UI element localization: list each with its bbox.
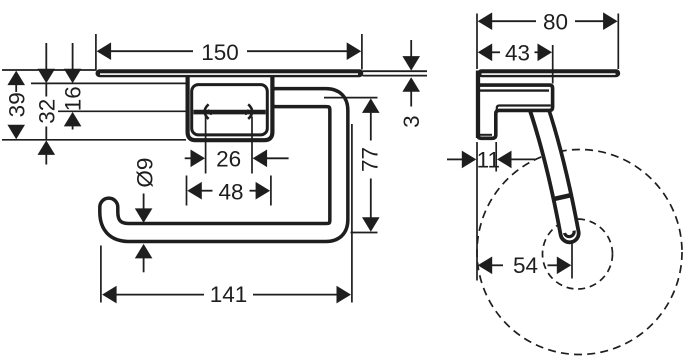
extension line shelf-top (y70) xyxy=(2,69,96,71)
shelf S2 (side view bar) xyxy=(477,69,620,77)
extension line plate-top (y83.4) xyxy=(31,82,186,84)
dim 26 right extension xyxy=(251,117,253,174)
dim 26 arrow left (outside pointing right) xyxy=(191,150,206,168)
holder arm A1 inner cap arc xyxy=(565,231,575,237)
wire W1 white core xyxy=(109,98,339,233)
svg-text:Ø9: Ø9 xyxy=(132,158,157,188)
bracket K1 foot inner line xyxy=(480,134,492,136)
svg-text:77: 77 xyxy=(358,147,383,172)
dim D9 arrow down xyxy=(135,208,153,223)
dim 54 line left xyxy=(492,264,504,266)
dim 16 tail top xyxy=(72,43,74,70)
dim 141 line right xyxy=(253,294,338,296)
dim 150 line right xyxy=(247,50,347,52)
dim 11 left tail xyxy=(447,158,463,160)
dim 3 bottom face line xyxy=(363,75,428,77)
dim D9 lower tail xyxy=(143,258,145,273)
dim 48 left extension xyxy=(186,176,188,206)
dim 80 arrow left xyxy=(478,12,493,30)
dim 11 right extension xyxy=(495,142,497,172)
extension line plate-bottom (y139.8) xyxy=(2,139,186,141)
shelf S2 inner slit xyxy=(482,73,616,75)
dim 26 arrow right (outside pointing left) xyxy=(253,150,268,168)
dim 3 lower tail xyxy=(410,91,412,107)
dim 150 arrow right xyxy=(347,42,362,60)
svg-text:11: 11 xyxy=(477,148,500,173)
extension line spindle (y111.3) xyxy=(58,110,186,112)
dim 77 bottom extension xyxy=(351,232,378,234)
roll core small dashed circle xyxy=(543,219,613,289)
dim 26 right tail xyxy=(267,157,289,159)
holder arm A1 joint seam xyxy=(555,195,571,198)
holder arm A1 white core xyxy=(539,107,570,233)
dim 3 arrow up (outside) xyxy=(402,77,420,92)
spring clip CL1 tick xyxy=(208,110,211,115)
dim 39 arrow up xyxy=(7,71,25,86)
dim 80 line left xyxy=(492,20,537,22)
svg-text:80: 80 xyxy=(543,10,568,35)
roll spindle bar B1 xyxy=(193,110,265,115)
svg-text:54: 54 xyxy=(513,253,538,278)
wall bracket K1 (side view outline) xyxy=(478,85,553,138)
wire roll-holder W1 (front view, double-line tube) xyxy=(109,98,339,233)
svg-text:43: 43 xyxy=(505,41,530,66)
bracket K1 step inner line xyxy=(497,106,551,111)
dim 26 left tail xyxy=(185,157,191,159)
dim 80 left extension xyxy=(476,14,478,70)
svg-text:48: 48 xyxy=(218,179,243,204)
wall line xyxy=(476,71,480,139)
dim 80 right extension xyxy=(617,14,619,70)
dim 16 arrow top (outside) xyxy=(64,69,82,84)
svg-text:16: 16 xyxy=(61,86,86,111)
dim 54 line right xyxy=(548,264,558,266)
svg-text:32: 32 xyxy=(34,99,59,124)
dim 48 line right xyxy=(250,190,257,192)
dim 43 line right xyxy=(535,51,539,53)
dim 80 arrow right xyxy=(603,12,618,30)
svg-text:26: 26 xyxy=(216,147,241,172)
dim 32 inner seg bottom xyxy=(45,127,47,140)
dim 48 right extension xyxy=(270,176,272,206)
dim 48 arrow left xyxy=(187,182,202,200)
dim 16 arrow bottom (outside) xyxy=(64,112,82,127)
dim 150 line left xyxy=(111,50,193,52)
mounting plate P1 outer body xyxy=(188,76,273,141)
dim 3 arrow down (outside) xyxy=(402,56,420,71)
spring clip CL1 (left) xyxy=(205,104,209,119)
dim D9 arrow up xyxy=(135,244,153,259)
dim 11 left extension (wall) xyxy=(476,142,478,281)
dim 150 right extension xyxy=(361,34,363,70)
dim 26 left extension xyxy=(205,117,207,174)
shelf S1 (front view bar) xyxy=(96,69,364,77)
dim 3 top face line xyxy=(363,70,428,72)
dim 43 right extension xyxy=(552,45,554,84)
dim 77 arrow up xyxy=(362,98,380,113)
spring clip CL2 tick xyxy=(246,110,249,115)
dim 43 line left xyxy=(492,51,501,53)
holder arm A1 (side view tube) xyxy=(539,109,570,234)
roll outline large dashed circle xyxy=(477,150,682,355)
svg-text:39: 39 xyxy=(4,92,29,117)
dim 16 tail bottom xyxy=(72,126,74,130)
dim 141 arrow right xyxy=(337,286,352,304)
spring clip CL2 (right) xyxy=(248,104,252,119)
dim 32 tail bottom xyxy=(45,154,47,165)
svg-text:3: 3 xyxy=(399,115,424,128)
dim 11 right tail xyxy=(511,158,535,160)
dim 150 arrow left xyxy=(97,42,112,60)
dim 54 right extension xyxy=(571,244,573,279)
dim 77 line bottom xyxy=(370,179,372,219)
dim 11 arrow right (outside pointing left) xyxy=(497,151,512,169)
dim 141 left extension xyxy=(100,246,102,303)
dim 150 left extension xyxy=(95,34,97,71)
dim 141 right extension xyxy=(351,124,353,303)
dim 80 line right xyxy=(575,20,604,22)
dim 43 arrow left xyxy=(478,44,493,62)
svg-text:150: 150 xyxy=(201,40,239,65)
dim 32 arrow bottom (outside) xyxy=(38,140,56,155)
dim 141 arrow left xyxy=(102,286,117,304)
dim 32 arrow top (outside) xyxy=(38,69,56,84)
dim 11 arrow left (outside pointing right) xyxy=(462,151,477,169)
bracket K1 inner line xyxy=(480,89,549,91)
dim 54 arrow left xyxy=(478,257,493,275)
dim 39 arrow down xyxy=(7,125,25,140)
dim 48 line left xyxy=(201,190,213,192)
dim 48 arrow right xyxy=(256,182,271,200)
shelf S1 inner slit xyxy=(100,73,358,75)
dim 3 upper tail xyxy=(410,40,412,58)
dim D9 leader line xyxy=(143,194,145,211)
dim 77 arrow down xyxy=(362,217,380,232)
dim 54 arrow right xyxy=(557,257,572,275)
dim 77 line top xyxy=(370,112,372,141)
dim 32 inner seg top xyxy=(45,84,47,97)
svg-text:141: 141 xyxy=(210,282,248,307)
dim 39 line xyxy=(15,84,17,92)
dim 32 tail top xyxy=(45,43,47,70)
dim 43 arrow right xyxy=(538,44,553,62)
mounting plate P1 inner face xyxy=(192,85,268,135)
dim 141 line left xyxy=(116,294,204,296)
dim 77 top extension xyxy=(324,97,378,99)
